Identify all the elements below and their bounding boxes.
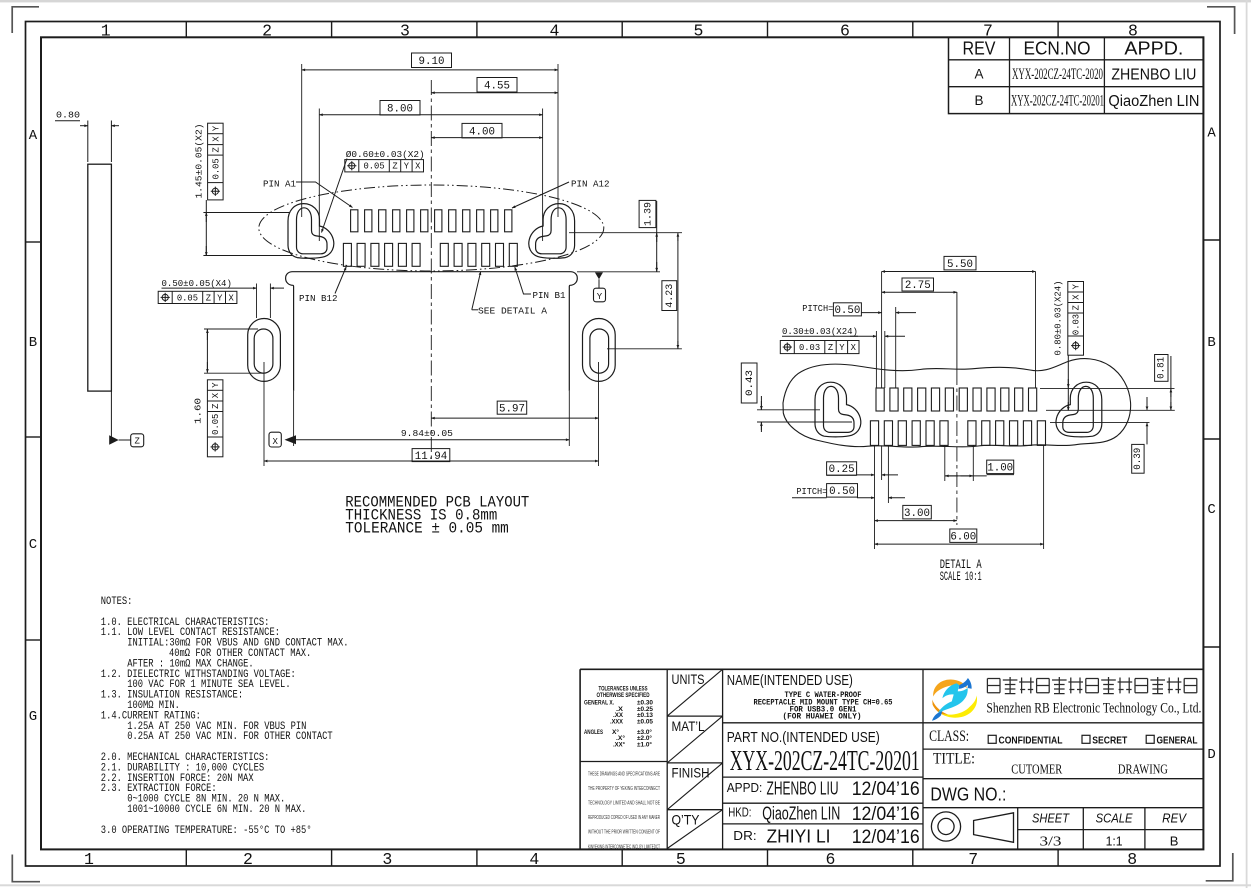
svg-text:X: X (272, 437, 278, 447)
company name Chinese characters (987, 677, 1196, 694)
svg-text:APPD.: APPD. (1124, 39, 1183, 59)
svg-text:REV: REV (963, 39, 996, 59)
dim 3.00 (875, 505, 957, 520)
svg-text:UNITS: UNITS (672, 671, 705, 687)
disclaimer box text (588, 772, 660, 851)
svg-text:0.43: 0.43 (744, 370, 756, 396)
pad row A (top, 12 pads) (351, 210, 512, 232)
svg-text:Z: Z (211, 147, 221, 152)
detail A caption (940, 557, 982, 584)
svg-text:5.97: 5.97 (499, 403, 525, 415)
dim pitch 0.50 bottom (792, 484, 905, 499)
svg-text:Y: Y (1072, 283, 1082, 289)
svg-text:1: 1 (84, 850, 94, 869)
dim 2.75 (882, 278, 957, 292)
dim 0.39 (1050, 397, 1150, 473)
dim 1.60 with vertical FCF (193, 329, 265, 457)
side view plate rectangle (88, 164, 112, 391)
dim 0.81 (1040, 355, 1175, 411)
svg-text:PIN B1: PIN B1 (533, 290, 566, 301)
svg-text:DWG NO.:: DWG NO.: (930, 784, 1006, 805)
svg-text:Q’TY: Q’TY (672, 812, 701, 828)
svg-text:X: X (1072, 294, 1082, 300)
svg-text:TECHNOLOGY LIMITED AND SHALL N: TECHNOLOGY LIMITED AND SHALL NOT BE (588, 801, 660, 807)
right keyhole slot (main view) (529, 204, 575, 259)
svg-text:0.25A AT 250 VAC MIN. FOR OTHE: 0.25A AT 250 VAC MIN. FOR OTHER CONTACT (127, 731, 333, 743)
svg-text:0.50±0.05(X4): 0.50±0.05(X4) (162, 278, 232, 289)
label PIN B12 (299, 267, 346, 304)
svg-text:C: C (1207, 502, 1215, 518)
svg-text:XYX-202CZ-24TC-20201: XYX-202CZ-24TC-20201 (730, 746, 920, 777)
tolerance box text (584, 687, 654, 749)
svg-text:B: B (29, 335, 37, 351)
approval rows (727, 779, 920, 849)
svg-text:±0.13: ±0.13 (637, 713, 654, 719)
page edge bottom (0, 884, 1251, 886)
svg-text:2: 2 (243, 850, 253, 869)
svg-text:X: X (851, 343, 857, 353)
svg-text:MAT’L: MAT’L (672, 718, 705, 734)
svg-text:Z: Z (134, 437, 140, 447)
svg-text:THE PROPERTY OF YEKING INTEECO: THE PROPERTY OF YEKING INTEECONNECT (588, 786, 660, 792)
svg-text:CLASS:: CLASS: (929, 728, 969, 745)
dim 4.00 (431, 123, 542, 138)
svg-text:0.05: 0.05 (177, 293, 198, 303)
dim 1.00 (945, 445, 1014, 481)
page edge right (1246, 0, 1248, 888)
svg-text:0.50: 0.50 (829, 486, 855, 498)
svg-text:.XX: .XX (613, 713, 623, 719)
svg-text:Y: Y (404, 162, 410, 172)
svg-text:REPRODUCED COPIED OF USED IN A: REPRODUCED COPIED OF USED IN ANY MANER (588, 815, 660, 821)
svg-text:±2.0°: ±2.0° (637, 736, 653, 742)
phantom ellipse connector outline (259, 185, 604, 271)
dim 5.50 (882, 256, 1036, 388)
svg-text:SCALE: SCALE (1096, 812, 1134, 826)
svg-text:3.0 OPERATING TEMPERATURE: -55: 3.0 OPERATING TEMPERATURE: -55°C TO +85° (101, 825, 312, 837)
company logo swirl (932, 678, 977, 721)
svg-text:PIN A1: PIN A1 (263, 178, 296, 189)
part no box (727, 730, 920, 777)
svg-text:A: A (974, 66, 983, 81)
svg-text:SHEET: SHEET (1032, 812, 1070, 826)
detail left keyhole slot (815, 382, 861, 437)
svg-text:TOLERANCE ± 0.05 mm: TOLERANCE ± 0.05 mm (345, 520, 509, 538)
svg-text:Y: Y (597, 292, 603, 302)
svg-text:0.81: 0.81 (1156, 357, 1168, 379)
svg-text:0.39: 0.39 (1132, 448, 1144, 470)
svg-text:Ø0.60±0.03(X2): Ø0.60±0.03(X2) (346, 149, 425, 160)
left keyhole slot (main view) (288, 204, 334, 259)
svg-text:0.03: 0.03 (799, 343, 820, 353)
svg-text:0.80±0.03(X24): 0.80±0.03(X24) (1053, 281, 1064, 356)
dim dia 0.60 with position FCF (322, 149, 425, 233)
detail centerline (956, 292, 958, 525)
dim 0.43 (741, 363, 852, 432)
sheet scale rev cells (1032, 812, 1188, 850)
svg-text:4: 4 (529, 850, 539, 869)
pad row B (bottom, 12 pads) (343, 243, 517, 266)
svg-text:1.39: 1.39 (643, 202, 655, 226)
svg-text:Y: Y (211, 125, 221, 131)
datum Y symbol (594, 272, 606, 301)
dim 8.00 (319, 101, 542, 242)
svg-text:±0.25: ±0.25 (637, 707, 654, 713)
svg-text:5: 5 (693, 22, 703, 41)
svg-text:QiaoZhen LIN: QiaoZhen LIN (1108, 93, 1199, 110)
zone row letters left (29, 128, 38, 725)
svg-text:4.55: 4.55 (484, 80, 510, 92)
svg-text:NOTES:: NOTES: (101, 596, 133, 608)
dim 9.84 with datum X (269, 391, 569, 447)
svg-text:9.10: 9.10 (419, 56, 445, 68)
dim 11.94 (264, 362, 599, 466)
label SEE DETAIL A (472, 272, 547, 317)
shield plate outline (286, 272, 578, 391)
svg-text:1.45±0.05(X2): 1.45±0.05(X2) (194, 124, 205, 199)
svg-text:1.60: 1.60 (193, 398, 204, 424)
cell labels UNITS MATL FINISH QTY (672, 671, 710, 828)
svg-text:5.50: 5.50 (947, 259, 973, 271)
svg-text:G: G (29, 709, 37, 725)
svg-text:±0.30: ±0.30 (637, 700, 654, 706)
corner mark top-right (1207, 7, 1235, 34)
svg-text:0.25: 0.25 (829, 464, 855, 476)
svg-text:3: 3 (382, 850, 392, 869)
svg-text:0.50: 0.50 (834, 305, 860, 317)
detail pad row top (12 pads) (876, 388, 1037, 411)
svg-text:KINYEKING INTERCONNETEC INCLGY: KINYEKING INTERCONNETEC INCLGY LIMITEDCT (588, 844, 660, 850)
svg-text:ZHENBO LIU: ZHENBO LIU (1111, 66, 1196, 83)
svg-text:.X: .X (616, 707, 623, 713)
detail right keyhole slot (1056, 382, 1102, 437)
svg-text:B: B (1170, 833, 1179, 848)
svg-text:.XXX: .XXX (610, 720, 623, 726)
dim pitch 0.50 top (802, 303, 916, 388)
zone column numbers bottom (84, 850, 1137, 869)
svg-text:HKD:: HKD: (728, 806, 751, 820)
svg-text:12/04’16: 12/04’16 (852, 827, 920, 848)
svg-text:DR:: DR: (733, 829, 756, 843)
svg-text:4.00: 4.00 (469, 126, 495, 138)
svg-text:Y: Y (839, 343, 845, 353)
svg-text:A: A (29, 128, 38, 144)
zone row ticks left (26, 242, 42, 640)
svg-text:FINISH: FINISH (672, 765, 710, 781)
svg-text:B: B (1207, 335, 1215, 351)
svg-text:0.80: 0.80 (56, 110, 80, 121)
detail extension lines bottom (882, 445, 889, 503)
svg-text:3: 3 (400, 22, 410, 41)
svg-text:2.75: 2.75 (905, 280, 931, 292)
label PIN A12 (512, 178, 610, 208)
svg-text:Z: Z (1072, 305, 1082, 310)
title row (933, 751, 1168, 778)
dim 4.55 (431, 78, 558, 93)
svg-text:0.03: 0.03 (1072, 314, 1082, 335)
label PIN B1 (515, 267, 566, 301)
svg-text:NAME(INTENDED USE): NAME(INTENDED USE) (727, 672, 853, 689)
svg-text:8: 8 (1127, 850, 1137, 869)
svg-text:SCALE 10:1: SCALE 10:1 (940, 569, 982, 584)
class row (929, 728, 1197, 746)
svg-text:9.84±0.05: 9.84±0.05 (401, 428, 453, 439)
zone row letters right (1207, 126, 1216, 764)
third angle projection symbol (931, 812, 1013, 842)
svg-text:Y: Y (217, 293, 223, 303)
svg-text:X: X (229, 293, 235, 303)
svg-text:0.05: 0.05 (363, 162, 384, 172)
svg-text:GENERAL: GENERAL (1157, 735, 1198, 746)
svg-text:REV: REV (1162, 812, 1188, 826)
svg-text:XYX-202CZ-24TC-2020: XYX-202CZ-24TC-2020 (1012, 66, 1103, 83)
svg-text:±0.05: ±0.05 (637, 720, 654, 726)
dim 6.00 (875, 445, 1044, 549)
svg-text:0.05: 0.05 (211, 158, 221, 179)
svg-text:Y: Y (211, 382, 221, 388)
svg-text:.XX°: .XX° (613, 743, 626, 749)
svg-text:SEE DETAIL A: SEE DETAIL A (478, 306, 547, 317)
svg-text:1:1: 1:1 (1106, 833, 1123, 848)
svg-text:2: 2 (262, 22, 272, 41)
dim 0.25 (827, 462, 898, 476)
svg-text:QiaoZhen LIN: QiaoZhen LIN (762, 804, 840, 824)
svg-text:GENERAL X.: GENERAL X. (584, 700, 614, 706)
left mounting oval slot (248, 319, 281, 382)
svg-text:3/3: 3/3 (1040, 834, 1062, 849)
svg-text:(FOR HUAWEI ONLY): (FOR HUAWEI ONLY) (783, 714, 862, 722)
svg-text:B: B (974, 93, 983, 108)
note recommended pcb layout (345, 493, 529, 537)
detail A blob outline (783, 359, 1131, 447)
svg-text:8.00: 8.00 (387, 103, 413, 115)
dim 4.23 (607, 233, 682, 349)
corner mark bottom-left (12, 855, 40, 882)
svg-text:XYX-202CZ-24TC-20201: XYX-202CZ-24TC-20201 (1011, 93, 1104, 110)
svg-text:Z: Z (392, 162, 397, 172)
svg-text:12/04’16: 12/04’16 (852, 779, 920, 800)
svg-text:ZHIYI LI: ZHIYI LI (767, 827, 831, 847)
zone column ticks bottom (186, 849, 1058, 866)
svg-text:CONFIDENTIAL: CONFIDENTIAL (999, 735, 1063, 746)
zone column numbers top (101, 22, 1138, 41)
svg-text:A: A (1207, 126, 1216, 142)
svg-text:X: X (211, 136, 221, 142)
svg-text:X: X (415, 162, 421, 172)
svg-text:6: 6 (826, 850, 836, 869)
svg-text:SECRET: SECRET (1092, 735, 1127, 746)
dim 9.10 (302, 53, 558, 217)
svg-text:±3.0°: ±3.0° (637, 730, 653, 736)
svg-text:PITCH=: PITCH= (796, 486, 827, 497)
label PIN A1 (263, 178, 353, 207)
svg-text:CUTOMER: CUTOMER (1011, 763, 1062, 778)
svg-text:.X°: .X° (616, 736, 626, 742)
svg-text:TITLE:: TITLE: (933, 751, 975, 768)
svg-text:Shenzhen RB Electronic Technol: Shenzhen RB Electronic Technology Co., L… (986, 701, 1201, 717)
zone column ticks top (186, 22, 1058, 38)
svg-text:PART NO.(INTENDED USE): PART NO.(INTENDED USE) (727, 730, 880, 746)
svg-text:PIN A12: PIN A12 (571, 178, 610, 189)
svg-text:1001~10000 CYCLE 6N MIN. 20 N: 1001~10000 CYCLE 6N MIN. 20 N MAX. (127, 804, 306, 816)
svg-text:ECN.NO: ECN.NO (1024, 39, 1091, 59)
dim 5.97 (431, 362, 598, 466)
corner mark top-left (12, 7, 39, 33)
corner mark bottom-right (1206, 853, 1233, 881)
right mounting oval slot (583, 319, 616, 382)
svg-text:Z: Z (828, 343, 833, 353)
svg-text:X: X (211, 392, 221, 398)
dim 0.50 oval slot with FCF (158, 278, 284, 318)
page edge top (0, 0, 1251, 2)
svg-text:12/04’16: 12/04’16 (852, 804, 920, 825)
title block grid (580, 669, 1203, 848)
svg-text:Z: Z (211, 404, 221, 409)
svg-text:0.30±0.03(X24): 0.30±0.03(X24) (782, 326, 858, 337)
svg-text:6.00: 6.00 (950, 531, 976, 543)
svg-text:1.00: 1.00 (987, 463, 1013, 475)
svg-text:OTHERWISE SPECIFIED: OTHERWISE SPECIFIED (597, 693, 650, 699)
zone row ticks right (1203, 240, 1220, 647)
svg-text:C: C (29, 537, 37, 553)
svg-text:D: D (1207, 747, 1215, 763)
svg-text:ANGLES: ANGLES (584, 730, 603, 736)
datum Z symbol (109, 391, 144, 447)
dim 0.80 vertical FCF (1053, 281, 1084, 411)
revision table (949, 37, 1204, 113)
svg-text:X°: X° (612, 730, 620, 736)
svg-text:ZHENBO LIU: ZHENBO LIU (767, 779, 839, 799)
svg-text:±1.0°: ±1.0° (637, 743, 653, 749)
svg-text:3.00: 3.00 (904, 508, 930, 520)
svg-text:5: 5 (676, 850, 686, 869)
svg-text:0.05: 0.05 (211, 414, 221, 435)
svg-text:1: 1 (101, 22, 111, 41)
name box (727, 672, 893, 722)
svg-text:APPD:: APPD: (727, 781, 763, 795)
dim 1.39 (569, 200, 682, 271)
svg-text:THESE DRAWINGS AND SPECIFICATI: THESE DRAWINGS AND SPECIFICATIONS ARE (588, 772, 660, 778)
dim 0.30 with FCF (780, 326, 905, 388)
svg-text:6: 6 (840, 22, 850, 41)
svg-text:PITCH=: PITCH= (802, 303, 833, 314)
notes text block (101, 596, 349, 837)
main view centerline (430, 80, 432, 462)
svg-text:4: 4 (549, 22, 559, 41)
svg-text:WITHOUT THE PRIOR WRITTEN CONS: WITHOUT THE PRIOR WRITTEN CONSENT OF (588, 830, 660, 836)
svg-text:4.23: 4.23 (664, 284, 676, 308)
dim 1.45 with vertical FCF (194, 123, 293, 255)
svg-text:DRAWING: DRAWING (1118, 763, 1168, 778)
svg-text:PIN B12: PIN B12 (299, 293, 338, 304)
svg-text:7: 7 (968, 850, 978, 869)
dim 0.80 side plate (55, 110, 119, 163)
svg-text:Z: Z (206, 293, 211, 303)
detail pad row bottom (12 pads) (870, 421, 1045, 446)
svg-text:TOLERANCES UNLESS: TOLERANCES UNLESS (599, 687, 648, 693)
